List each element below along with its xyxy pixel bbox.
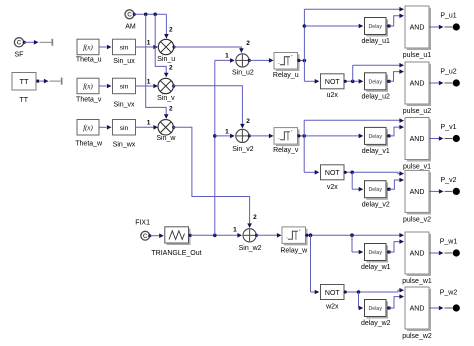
svg-text:SF: SF (15, 51, 24, 58)
svg-text:TT: TT (20, 97, 29, 104)
svg-text:delay_u2: delay_u2 (362, 93, 391, 100)
svg-text:Delay: Delay (368, 79, 382, 85)
svg-text:Theta_u: Theta_u (76, 57, 102, 64)
svg-text:1: 1 (147, 39, 151, 46)
svg-text:AND: AND (410, 136, 425, 143)
svg-text:Theta_w: Theta_w (75, 140, 103, 147)
svg-text:pulse_v1: pulse_v1 (403, 164, 431, 171)
svg-text:delay_u1: delay_u1 (362, 38, 391, 45)
svg-text:Delay: Delay (368, 134, 382, 140)
svg-text:AND: AND (410, 306, 425, 313)
svg-text:delay_v2: delay_v2 (362, 201, 390, 208)
svg-text:pulse_u1: pulse_u1 (403, 52, 432, 59)
svg-text:Sin_ux: Sin_ux (113, 58, 135, 65)
svg-text:u2x: u2x (327, 92, 339, 99)
svg-text:Sin_w: Sin_w (156, 135, 176, 142)
svg-text:Sin_wx: Sin_wx (113, 142, 136, 149)
svg-text:P_v2: P_v2 (441, 177, 457, 184)
svg-text:f(x): f(x) (83, 84, 93, 91)
svg-text:Theta_v: Theta_v (76, 97, 102, 104)
svg-text:delay_w1: delay_w1 (361, 264, 391, 271)
svg-text:P_u1: P_u1 (440, 13, 456, 20)
svg-text:C: C (143, 233, 148, 240)
svg-text:TT: TT (19, 77, 29, 86)
svg-text:2: 2 (169, 65, 173, 72)
svg-text:Delay: Delay (368, 187, 382, 193)
svg-text:P_w1: P_w1 (440, 239, 458, 246)
svg-text:f(x): f(x) (83, 45, 93, 52)
svg-text:v2x: v2x (327, 184, 338, 191)
svg-text:FIX1: FIX1 (135, 220, 150, 227)
svg-text:pulse_w1: pulse_w1 (402, 278, 432, 285)
svg-text:2: 2 (169, 106, 173, 113)
svg-text:Relay_v: Relay_v (273, 147, 299, 154)
svg-text:Relay_w: Relay_w (280, 247, 308, 254)
svg-text:1: 1 (233, 226, 237, 233)
svg-text:pulse_w2: pulse_w2 (402, 333, 432, 340)
svg-text:delay_v1: delay_v1 (362, 148, 390, 155)
svg-text:Sin_vx: Sin_vx (113, 101, 135, 108)
svg-text:AND: AND (410, 81, 425, 88)
svg-text:AND: AND (410, 189, 425, 196)
svg-text:NOT: NOT (325, 79, 341, 86)
svg-text:C: C (127, 12, 132, 19)
svg-text:2: 2 (246, 118, 250, 125)
svg-text:1: 1 (147, 78, 151, 85)
svg-text:Sin_v: Sin_v (157, 95, 175, 102)
svg-text:w2x: w2x (325, 304, 339, 311)
svg-text:AM: AM (125, 23, 136, 30)
svg-text:C: C (17, 40, 22, 47)
svg-text:Sin_u: Sin_u (157, 56, 175, 63)
svg-text:pulse_v2: pulse_v2 (403, 216, 431, 223)
svg-text:P_u2: P_u2 (440, 69, 456, 76)
svg-text:Relay_u: Relay_u (273, 72, 299, 79)
svg-text:sin: sin (120, 84, 129, 91)
svg-text:1: 1 (225, 53, 229, 60)
svg-text:Delay: Delay (368, 24, 382, 30)
svg-text:AND: AND (410, 251, 425, 258)
svg-text:AND: AND (410, 25, 425, 32)
svg-text:Sin_w2: Sin_w2 (239, 245, 262, 252)
svg-text:P_v1: P_v1 (441, 124, 457, 131)
svg-text:Sin_v2: Sin_v2 (232, 146, 254, 153)
svg-text:delay_w2: delay_w2 (361, 320, 391, 327)
svg-text:2: 2 (246, 40, 250, 47)
svg-text:f(x): f(x) (83, 125, 93, 132)
svg-text:2: 2 (253, 214, 257, 221)
svg-text:NOT: NOT (325, 290, 341, 297)
svg-text:Sin_u2: Sin_u2 (232, 69, 254, 76)
svg-text:1: 1 (147, 120, 151, 127)
svg-text:2: 2 (169, 26, 173, 33)
svg-text:sin: sin (120, 125, 129, 132)
svg-text:pulse_u2: pulse_u2 (403, 108, 432, 115)
svg-text:P_w2: P_w2 (440, 289, 458, 296)
svg-text:TRIANGLE_Out: TRIANGLE_Out (151, 250, 201, 257)
svg-text:NOT: NOT (325, 170, 341, 177)
svg-text:Delay: Delay (368, 250, 382, 256)
svg-text:1: 1 (225, 129, 229, 136)
svg-text:sin: sin (120, 45, 129, 52)
svg-text:Delay: Delay (368, 306, 382, 312)
